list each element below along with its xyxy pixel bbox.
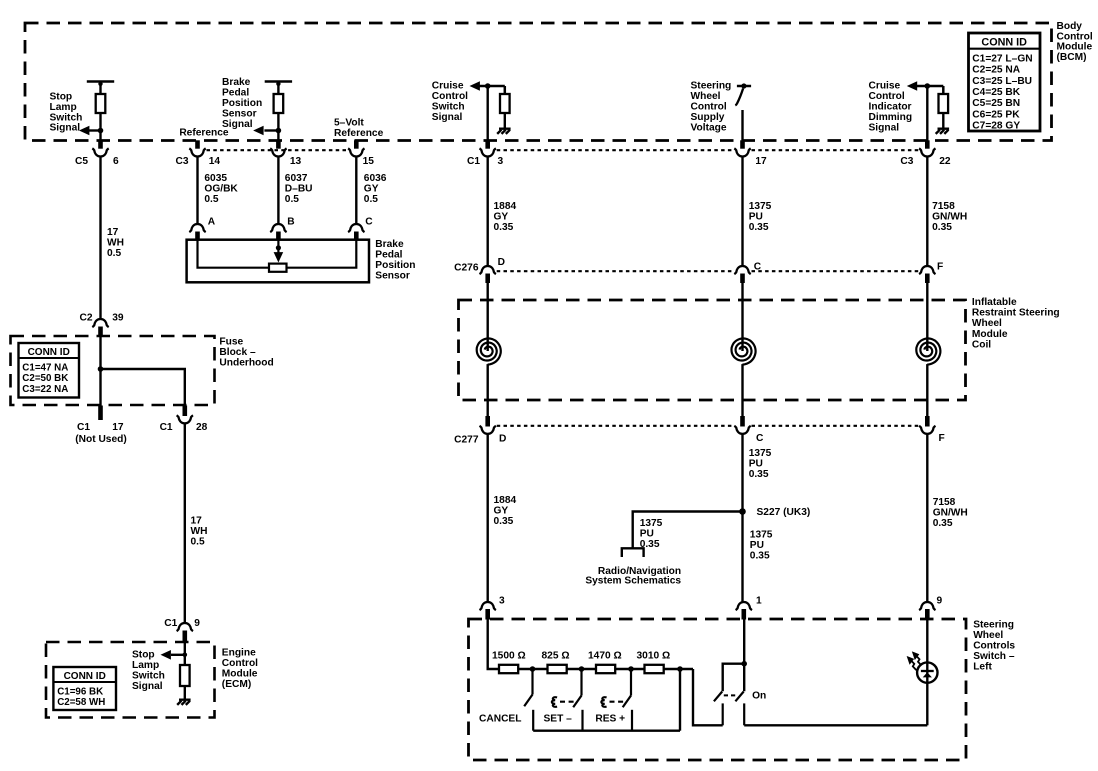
connector C3 pin 22 [925,140,930,148]
connector C1 pin 28 [183,406,188,417]
wire 1884 GY 0.35 [487,157,489,266]
component box: Brake Pedal Position Sensor [187,240,369,283]
svg-text:OG/BK: OG/BK [204,183,238,194]
connector C5 pin 6 [98,140,103,148]
svg-text:0.5: 0.5 [364,194,378,205]
svg-text:System Schematics: System Schematics [585,576,681,587]
wiper arrow [274,252,284,262]
svg-text:7158: 7158 [933,497,956,508]
svg-text:6: 6 [113,156,119,167]
connector C277 pin D [485,416,490,427]
connector pin B [270,224,286,232]
svg-text:Restraint Steering: Restraint Steering [972,308,1060,319]
svg-text:17: 17 [107,227,119,238]
svg-text:Control: Control [432,91,468,102]
wire [741,364,743,421]
svg-text:Signal: Signal [132,681,163,692]
wire (7158 into switch) [926,619,928,663]
svg-text:Sensor: Sensor [375,271,410,282]
module box: Body Control Module (BCM) [25,23,1052,141]
splice S227 (UK3) [739,508,746,515]
wire [926,86,928,142]
wire (ladder output to common bus) [679,669,681,731]
signal arrow: Stop Lamp Switch Signal (ECM) [171,654,185,656]
wire (sensor internal, B wiper) [277,240,279,255]
svg-text:C1=96 BK: C1=96 BK [57,686,103,697]
svg-text:C4=25 BK: C4=25 BK [972,87,1020,98]
junction (ladder output) [677,666,683,672]
wire (1375 into switch) [743,619,745,692]
wire [504,113,506,128]
svg-text:C3=25 L–BU: C3=25 L–BU [972,76,1032,87]
power feed bar (stop lamp pull-up) [87,80,114,83]
svg-text:6037: 6037 [285,173,308,184]
svg-text:Inflatable: Inflatable [972,297,1017,308]
connector C277 pin C [740,416,745,427]
svg-text:GY: GY [364,183,379,194]
off-page connector: Radio/Navigation System Schematics [622,548,644,557]
connector pin 17 [740,140,745,148]
svg-text:0.35: 0.35 [749,222,769,233]
svg-text:1470 Ω: 1470 Ω [588,651,622,662]
wire (1884 into switch) [488,619,499,670]
wire [487,283,489,351]
svg-text:Switch: Switch [432,102,465,113]
svg-text:C2=58 WH: C2=58 WH [57,697,105,708]
svg-text:C6=25 PK: C6=25 PK [972,109,1020,120]
svg-text:C: C [756,433,764,444]
signal arrow: Stop Lamp Switch Signal [89,129,101,131]
svg-text:GN/WH: GN/WH [932,211,967,222]
ground (ECM internal) [177,700,190,705]
svg-text:0.5: 0.5 [107,248,121,259]
potentiometer element (sensor) [269,264,287,272]
svg-text:Signal: Signal [869,123,900,134]
svg-text:(ECM): (ECM) [222,679,251,690]
wire 7158 GN/WH 0.35 [926,157,928,266]
wire [567,668,596,670]
svg-text:Lamp: Lamp [132,660,159,671]
wire [99,113,101,142]
svg-text:1375: 1375 [640,518,663,529]
svg-text:C2=25 NA: C2=25 NA [972,65,1020,76]
svg-text:Dimming: Dimming [869,112,913,123]
svg-text:S227 (UK3): S227 (UK3) [757,507,811,518]
connector C1 pin 17 (Not Used) [98,406,103,421]
svg-text:17: 17 [755,156,767,167]
svg-text:B: B [287,216,294,227]
svg-text:Steering: Steering [973,620,1014,631]
svg-text:1884: 1884 [494,201,517,212]
connector C276 pin C [734,266,750,274]
svg-text:Switch: Switch [50,112,83,123]
svg-text:PU: PU [750,540,764,551]
svg-text:C1: C1 [164,618,177,629]
svg-text:1375: 1375 [749,201,772,212]
svg-text:WH: WH [191,526,208,537]
svg-text:C3: C3 [175,156,188,167]
resistor 3010 ohm [645,665,664,673]
svg-text:(BCM): (BCM) [1057,52,1087,63]
svg-text:0.35: 0.35 [750,550,770,561]
svg-text:CONN ID: CONN ID [28,347,70,358]
svg-text:Pedal: Pedal [222,88,249,99]
junction [925,83,931,89]
connector group line C3 [207,149,348,151]
svg-text:WH: WH [107,237,124,248]
svg-text:1375: 1375 [750,530,773,541]
svg-text:Cruise: Cruise [432,81,464,92]
svg-text:Control: Control [869,91,905,102]
svg-text:Signal: Signal [50,123,81,134]
svg-text:9: 9 [937,596,943,607]
connector C1 pin 9 [177,623,193,631]
svg-text:C3=22 NA: C3=22 NA [22,384,68,395]
connector ID table (ECM) [53,667,116,710]
LED indicator lamp [917,662,937,682]
svg-text:0.5: 0.5 [191,536,205,547]
svg-text:Position: Position [222,98,262,109]
connector C2 pin 39 [92,319,108,327]
svg-text:Reference: Reference [334,128,384,139]
connector pin C [348,224,364,232]
connector group line C277 [497,425,734,427]
svg-text:Signal: Signal [432,112,463,123]
ground (BCM internal) [497,129,510,134]
svg-text:Module: Module [222,669,258,680]
svg-text:C5=25 BN: C5=25 BN [972,98,1020,109]
svg-text:17: 17 [112,422,124,433]
LED emission arrows [908,653,921,670]
connector C3 pin 14 [195,140,200,148]
junction (set tap) [579,666,585,672]
svg-text:C2: C2 [79,313,92,324]
wire [487,86,489,142]
wire 1884 GY 0.35 [487,434,489,602]
svg-text:3010 Ω: 3010 Ω [637,651,671,662]
svg-text:1375: 1375 [749,448,772,459]
svg-text:C1=27 L–GN: C1=27 L–GN [972,54,1032,65]
svg-text:C5: C5 [75,156,88,167]
svg-text:7158: 7158 [932,201,955,212]
signal arrow: Brake Pedal Position Sensor Signal [264,129,278,131]
svg-text:Wheel: Wheel [973,630,1003,641]
svg-text:39: 39 [112,313,124,324]
connector group line C1-C3 [497,149,734,151]
svg-text:3: 3 [499,596,505,607]
svg-text:Position: Position [375,260,415,271]
svg-text:On: On [752,691,766,702]
resistor (BCM internal, dimming signal) [939,94,949,113]
wire [942,86,945,94]
svg-text:17: 17 [191,516,203,527]
svg-text:1500 Ω: 1500 Ω [492,651,526,662]
wire (sensor internal, C) [287,240,357,268]
svg-text:Pedal: Pedal [375,250,402,261]
wire 17 WH 0.5 (to ECM) [184,423,186,623]
connector C276 pin D [480,266,496,274]
junction (On switch) [741,661,747,667]
svg-text:Brake: Brake [375,239,404,250]
junction [276,128,282,134]
switch On (2-pole) [714,692,744,726]
svg-text:A: A [208,216,216,227]
wire [487,364,489,421]
svg-text:Indicator: Indicator [869,102,912,113]
svg-text:13: 13 [290,156,302,167]
wire (On switch to LED) [744,724,927,726]
wire 1375 PU 0.35 [741,434,743,602]
resistor (BCM internal, cruise switch signal) [500,94,510,113]
svg-text:0.35: 0.35 [932,222,952,233]
svg-text:0.35: 0.35 [933,518,953,529]
svg-text:GY: GY [494,211,509,222]
svg-text:F: F [939,433,945,444]
wire [504,86,507,94]
connector group line C276 [497,270,734,272]
svg-text:0.35: 0.35 [494,222,514,233]
svg-text:Control: Control [222,658,258,669]
svg-text:Supply: Supply [691,112,725,123]
svg-text:Cruise: Cruise [869,81,901,92]
wire (On switch left pole feed) [723,664,745,692]
svg-text:Switch: Switch [132,671,165,682]
switch contact bar (BCM internal supply) [737,85,751,88]
connector C1 pin 3 [485,140,490,148]
module box: Steering Wheel Controls Switch - Left [469,619,967,760]
connector C277 pin F [925,416,930,427]
svg-text:Coil: Coil [972,339,991,350]
svg-text:9: 9 [194,618,200,629]
svg-text:Voltage: Voltage [691,123,727,134]
svg-text:GY: GY [494,505,509,516]
power feed bar (brake pedal sensor pull-up) [265,80,292,83]
coil (clockspring, 1375 circuit) [732,338,756,364]
module box: Inflatable Restraint Steering Wheel Module Coil [459,300,966,400]
connector pin 3 [480,602,496,610]
svg-text:0.35: 0.35 [494,516,514,527]
svg-text:0.5: 0.5 [285,194,299,205]
svg-text:15: 15 [363,156,375,167]
wire [741,110,743,142]
junction [276,245,281,250]
wire (splice branch to radio) [633,512,743,549]
connector ID table (Fuse Block) [19,343,80,398]
wire [926,283,928,351]
svg-text:Lamp: Lamp [50,102,77,113]
svg-text:C1: C1 [160,422,173,433]
svg-text:0.5: 0.5 [204,194,218,205]
wire [184,686,186,699]
svg-text:Wheel: Wheel [691,91,721,102]
svg-text:Stop: Stop [50,92,73,103]
wire [277,84,279,94]
svg-text:C277: C277 [454,435,479,446]
svg-text:Wheel: Wheel [972,318,1002,329]
svg-text:D: D [499,434,506,445]
resistor (BCM internal pull-up, brake pedal sensor) [274,94,284,113]
svg-text:C7=28 GY: C7=28 GY [972,120,1020,131]
svg-text:Underhood: Underhood [219,358,273,369]
junction [485,83,491,89]
switch blade [735,89,743,106]
svg-text:Brake: Brake [222,77,251,88]
switch CANCEL [524,669,533,731]
ground (BCM internal) [936,129,949,134]
coil (clockspring, 7158 circuit) [916,338,940,364]
wire 17 WH 0.5 [99,157,101,319]
wire [942,113,944,128]
wire [615,668,644,670]
signal arrow: Cruise Control Indicator Dimming Signal [907,81,917,91]
svg-text:C2=50 BK: C2=50 BK [22,373,68,384]
svg-text:Reference: Reference [179,128,229,139]
svg-text:C276: C276 [454,263,479,274]
svg-text:1884: 1884 [494,495,517,506]
signal arrow: Cruise Control Switch Signal [470,81,480,91]
svg-text:6035: 6035 [204,173,227,184]
junction [98,366,104,372]
coil (clockspring, 1884 circuit) [477,338,501,364]
module box: Engine Control Module (ECM) [46,642,215,718]
wire 1375 PU 0.35 [741,157,743,266]
svg-text:PU: PU [749,211,763,222]
svg-text:3: 3 [498,156,504,167]
svg-text:0.35: 0.35 [749,469,769,480]
wire [664,668,693,670]
svg-text:Engine: Engine [222,648,256,659]
resistor 1500 ohm [499,665,518,673]
svg-text:D: D [498,257,505,268]
connector C276 pin F [919,266,935,274]
svg-text:CANCEL: CANCEL [479,714,521,725]
switch RES + [601,669,632,731]
svg-text:Switch –: Switch – [973,651,1015,662]
connector pin 1 [736,602,752,610]
junction [98,128,104,134]
svg-text:Fuse: Fuse [219,337,243,348]
wire 6037 [277,157,279,224]
svg-text:C1: C1 [467,156,480,167]
wire [99,84,101,94]
wire [518,668,547,670]
wire (ECM internal) [184,641,186,665]
svg-text:PU: PU [640,528,654,539]
svg-text:14: 14 [209,156,221,167]
svg-text:Module: Module [972,329,1008,340]
svg-text:28: 28 [196,422,208,433]
connector pin 9 [919,602,935,610]
resistor (BCM internal pull-up, stop lamp) [96,94,106,113]
svg-text:F: F [937,262,943,273]
wire (LED to On switch) [926,683,928,726]
junction [183,653,188,658]
svg-text:Stop: Stop [132,650,155,661]
svg-text:Controls: Controls [973,641,1015,652]
wire 6035 [196,157,198,224]
module box: Fuse Block - Underhood [11,336,215,405]
svg-text:C1=47 NA: C1=47 NA [22,362,68,373]
svg-text:C: C [365,216,373,227]
switch SET - [552,669,583,731]
connector ID table (BCM) [969,33,1041,131]
svg-text:6036: 6036 [364,173,387,184]
svg-text:C1: C1 [77,422,90,433]
svg-text:SET –: SET – [544,714,573,725]
resistor (ECM internal) [180,665,190,686]
wire (switch common bus) [533,730,680,732]
svg-text:22: 22 [939,156,951,167]
svg-text:CONN ID: CONN ID [981,37,1027,49]
wire [277,113,279,142]
wire 7158 GN/WH 0.35 [926,434,928,602]
svg-text:Sensor: Sensor [222,109,257,120]
svg-text:RES +: RES + [595,714,625,725]
connector C3 pin 15 [354,140,359,148]
svg-text:C3: C3 [900,156,913,167]
svg-text:825 Ω: 825 Ω [542,651,570,662]
svg-text:(Not Used): (Not Used) [75,434,127,445]
svg-text:Left: Left [973,662,992,673]
svg-text:5–Volt: 5–Volt [334,118,364,129]
svg-text:PU: PU [749,458,763,469]
wire [926,364,928,421]
junction (res tap) [628,666,634,672]
connector pin A [189,224,205,232]
resistor 825 ohm [548,665,567,673]
svg-text:CONN ID: CONN ID [64,671,106,682]
junction (cancel tap) [530,666,536,672]
wire (fuse block internal) [99,336,101,406]
svg-text:D–BU: D–BU [285,183,313,194]
wire [741,283,743,351]
svg-text:Control: Control [691,102,727,113]
svg-text:1: 1 [756,596,762,607]
wire 6036 [355,157,357,224]
wire (fuse block internal, branch) [101,369,185,406]
wire (sensor internal, A) [198,240,270,268]
connector C3 pin 13 [276,140,281,148]
svg-text:Steering: Steering [691,81,732,92]
wire (ladder output to On switch) [693,669,723,725]
svg-text:GN/WH: GN/WH [933,507,968,518]
resistor 1470 ohm [596,665,615,673]
svg-text:Block –: Block – [219,347,256,358]
